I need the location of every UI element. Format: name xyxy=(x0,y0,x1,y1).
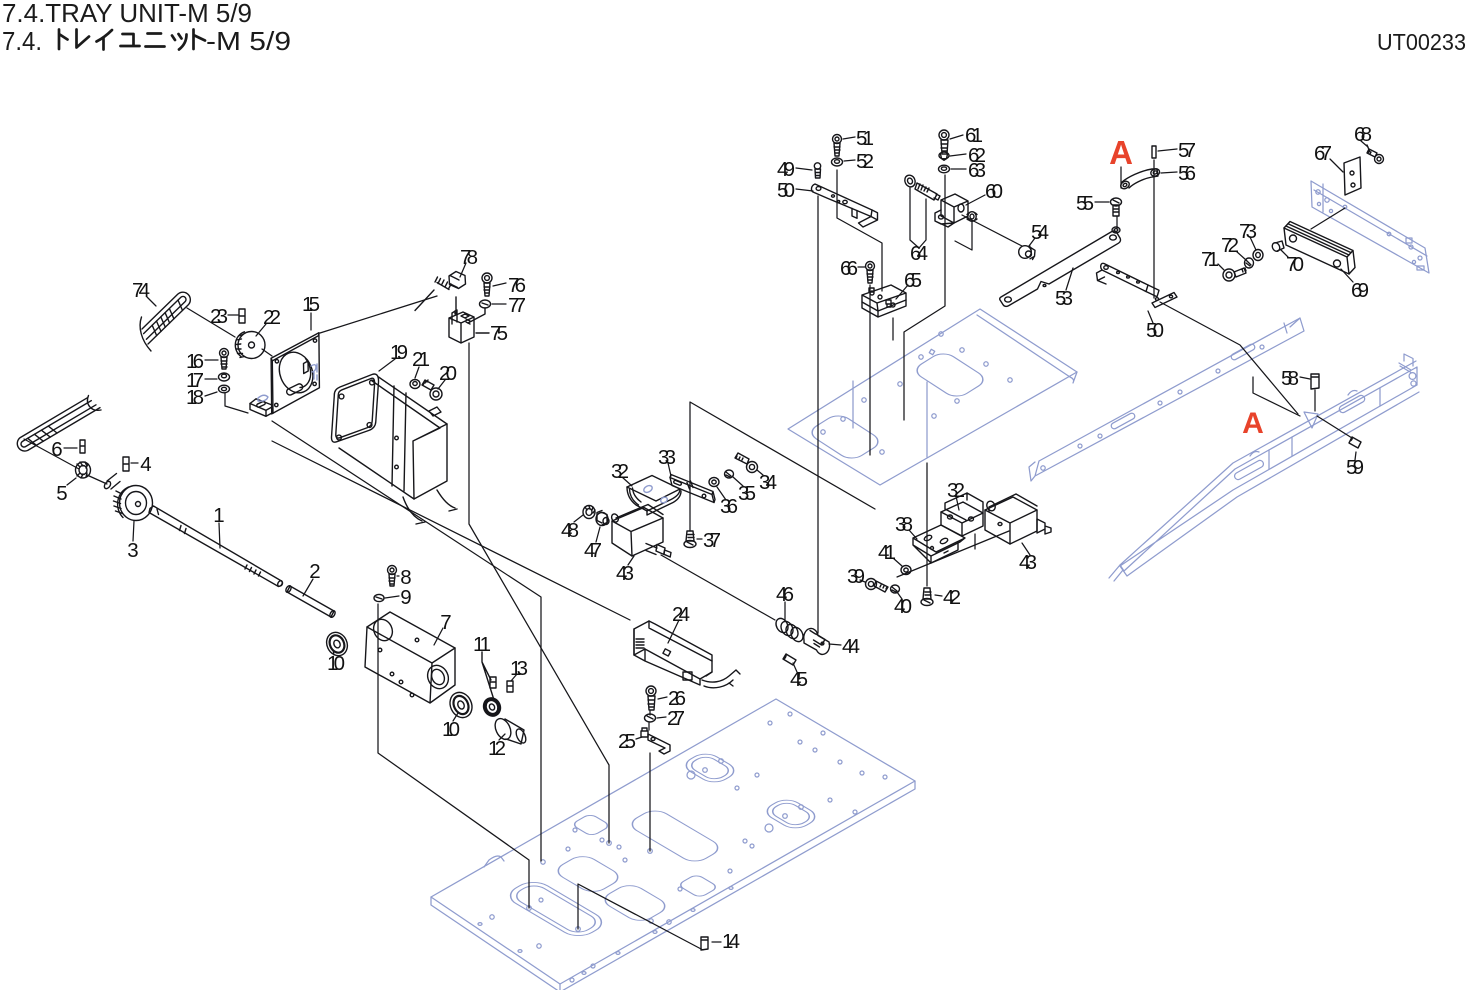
bottom plate cascade cutout middle xyxy=(552,853,625,895)
rail top-right inner lines xyxy=(1314,184,1427,256)
leader bracket 25 to base plate xyxy=(649,753,651,851)
leader pin 57 down through arm 56 to 50b xyxy=(1153,160,1155,298)
rail bottom top tabs xyxy=(1250,391,1357,457)
svg-text:33: 33 xyxy=(658,446,676,469)
rail middle holes xyxy=(1041,345,1264,470)
screw 55 xyxy=(1111,198,1122,233)
dash 61 xyxy=(950,135,963,139)
middle blue plate outline xyxy=(788,309,1077,485)
svg-text:15: 15 xyxy=(302,293,320,316)
dash 9 xyxy=(385,596,399,598)
leader washer of 60 xyxy=(955,222,972,250)
dash 57 xyxy=(1158,149,1177,151)
svg-text:43: 43 xyxy=(1019,551,1037,574)
pin 4 xyxy=(123,457,129,471)
bottom plate pocket A xyxy=(680,750,740,785)
block 60 xyxy=(935,194,968,227)
dash 2 xyxy=(303,579,313,596)
bottom blue plate outline xyxy=(431,699,915,984)
svg-text:-M 5/9: -M 5/9 xyxy=(206,26,291,56)
dash 1 xyxy=(219,523,220,548)
rod 2 xyxy=(285,585,336,618)
pin 58 xyxy=(1311,374,1319,389)
dash 65 xyxy=(896,285,908,299)
slide bar 69 xyxy=(1284,222,1355,275)
svg-text:10: 10 xyxy=(442,718,460,741)
svg-text:37: 37 xyxy=(703,529,721,552)
pin 14 xyxy=(701,937,708,950)
leader washer 9 to base plate xyxy=(378,604,529,908)
svg-text:59: 59 xyxy=(1346,456,1364,479)
nut 62 xyxy=(939,152,949,160)
svg-text:65: 65 xyxy=(904,269,922,292)
solenoid 43L xyxy=(610,505,671,558)
dash 59 xyxy=(1355,452,1356,460)
dash 73 xyxy=(1250,237,1256,250)
dash 70 xyxy=(1281,250,1288,257)
shaft 1 xyxy=(149,506,283,587)
svg-text:50: 50 xyxy=(777,179,795,202)
svg-text:32: 32 xyxy=(947,479,965,502)
leader screw 26 to washer 27 to bracket 25 xyxy=(649,711,650,730)
dash 45 xyxy=(793,663,797,672)
screw 16 xyxy=(220,349,229,370)
solenoid 43R xyxy=(985,494,1051,544)
bolt 20 xyxy=(422,380,442,400)
washer 72 xyxy=(1245,258,1254,268)
screw 23 xyxy=(239,309,245,323)
block 75 xyxy=(449,310,474,343)
svg-text:68: 68 xyxy=(1354,123,1372,146)
pin 45 xyxy=(783,654,796,665)
svg-text:54: 54 xyxy=(1031,221,1049,244)
leader chain 49/50 down to coupler 44 xyxy=(817,196,819,633)
bushing 70 xyxy=(1271,241,1284,253)
kana i xyxy=(97,30,113,50)
bearing housing 7 xyxy=(365,612,455,703)
dash 37 xyxy=(697,538,702,540)
svg-text:27: 27 xyxy=(667,707,685,730)
leader fence screw 37 xyxy=(690,402,875,531)
screw 51 xyxy=(833,135,842,157)
washer 40 xyxy=(891,585,900,593)
svg-text:50: 50 xyxy=(1146,319,1164,342)
dash 46 xyxy=(784,602,786,620)
svg-text:57: 57 xyxy=(1178,139,1196,162)
leader red A2 bracket xyxy=(1253,377,1300,416)
leader 75 dash xyxy=(476,332,489,334)
dash 78 xyxy=(460,263,466,277)
svg-text:75: 75 xyxy=(490,322,508,345)
leader red A1 xyxy=(1120,167,1122,188)
dash 51 xyxy=(843,137,855,139)
washer 21 xyxy=(410,380,420,389)
svg-text:21: 21 xyxy=(412,348,430,371)
nut 47 xyxy=(596,511,609,526)
svg-text:1: 1 xyxy=(213,504,224,527)
svg-text:56: 56 xyxy=(1178,162,1196,185)
svg-text:60: 60 xyxy=(985,180,1003,203)
svg-text:43: 43 xyxy=(616,562,634,585)
kana to 2 xyxy=(194,30,206,50)
leader 50b to bottom rail xyxy=(1160,302,1298,414)
bottom plate cascade pocket left xyxy=(503,878,610,941)
svg-text:52: 52 xyxy=(856,150,874,173)
svg-text:58: 58 xyxy=(1281,367,1299,390)
leader bolt 78 to plate 15 xyxy=(320,296,437,333)
dash 17 xyxy=(205,378,217,380)
svg-text:7.4.: 7.4. xyxy=(2,26,42,56)
svg-text:44: 44 xyxy=(842,635,860,658)
pin 57 xyxy=(1152,146,1156,158)
svg-text:72: 72 xyxy=(1221,234,1239,257)
threaded shaft 64b xyxy=(915,183,940,200)
dash 74 xyxy=(147,297,156,306)
bottom plate square cutout 2 xyxy=(677,874,718,898)
bolt 78 xyxy=(415,272,466,311)
mount plate 15 xyxy=(250,333,319,417)
dash 67 xyxy=(1330,159,1343,172)
pin 6 xyxy=(80,440,85,453)
svg-text:48: 48 xyxy=(561,519,579,542)
middle plate holes xyxy=(821,332,1012,454)
dash 71 xyxy=(1218,264,1224,270)
screw 37 xyxy=(684,531,696,548)
dash 14 xyxy=(712,941,721,943)
dash 44 xyxy=(829,644,841,645)
belt 74 lower segment xyxy=(17,396,101,452)
washer 17 xyxy=(219,373,230,381)
collar 11b xyxy=(482,697,501,717)
svg-text:45: 45 xyxy=(790,668,808,691)
rail top-right outline xyxy=(1311,181,1429,273)
dash 27 xyxy=(657,717,666,718)
bottom plate small holes xyxy=(478,712,887,982)
svg-text:24: 24 xyxy=(672,603,690,626)
svg-text:42: 42 xyxy=(943,586,961,609)
bearing 10b xyxy=(446,689,476,721)
svg-text:32: 32 xyxy=(611,460,629,483)
kana re xyxy=(77,30,90,48)
dash 7 xyxy=(434,628,443,645)
dash 43R xyxy=(1022,543,1030,555)
svg-text:66: 66 xyxy=(840,257,858,280)
dash 68 xyxy=(1361,141,1368,147)
dash 39 xyxy=(860,580,865,582)
rail bottom left tail xyxy=(1109,565,1123,581)
bracket 32R xyxy=(941,493,983,536)
svg-text:49: 49 xyxy=(777,158,795,181)
svg-text:7: 7 xyxy=(440,611,451,634)
bolt 61 xyxy=(939,130,949,154)
leader bracket 32R xyxy=(974,534,976,549)
dash 25 xyxy=(636,737,642,739)
dash 54 xyxy=(1029,238,1035,246)
kana small tsu xyxy=(172,34,187,50)
bracket 25 xyxy=(641,728,670,754)
dash 10b xyxy=(453,713,458,721)
lever bar 53 xyxy=(1000,231,1121,306)
nut 54 xyxy=(1019,246,1035,260)
dash 35 xyxy=(733,477,743,486)
leader pin 59 xyxy=(1317,416,1352,438)
svg-text:63: 63 xyxy=(968,159,986,182)
dash 21 xyxy=(415,367,419,378)
rail bottom slots xyxy=(1233,459,1264,481)
dash 50b xyxy=(1148,311,1153,323)
svg-text:39: 39 xyxy=(847,565,865,588)
washer 18 xyxy=(219,385,230,393)
belt 74 upper segment xyxy=(140,292,190,351)
svg-text:47: 47 xyxy=(584,539,602,562)
washer 9 xyxy=(374,594,384,601)
dash 58 xyxy=(1300,377,1310,379)
leader fence plate15 to sensor 24 xyxy=(272,441,630,620)
washer 77 xyxy=(480,300,491,308)
svg-text:25: 25 xyxy=(618,730,636,753)
link bar 50a xyxy=(811,184,877,227)
bottom plate side faces xyxy=(431,781,915,990)
leader block 60 to nut 54 xyxy=(962,215,1022,246)
rail top-right holes xyxy=(1316,190,1424,270)
svg-text:7.4.TRAY UNIT-M 5/9: 7.4.TRAY UNIT-M 5/9 xyxy=(2,0,252,28)
bolt 39 xyxy=(866,579,889,593)
pin 13 xyxy=(507,681,513,692)
leader screw 42 xyxy=(926,463,928,586)
svg-text:18: 18 xyxy=(186,386,204,409)
dash 20 xyxy=(438,380,445,389)
leader washer 52 to slider 65 xyxy=(837,170,882,291)
svg-text:34: 34 xyxy=(759,471,777,494)
shaft washer 64a xyxy=(903,173,917,188)
bottom plate pocket B xyxy=(761,796,821,831)
bracket 38 xyxy=(913,525,965,563)
dash 32L xyxy=(622,477,632,486)
link bar 50b xyxy=(1097,263,1178,307)
crank arm 56 xyxy=(1119,168,1160,191)
dash 55 xyxy=(1095,201,1109,203)
svg-text:6: 6 xyxy=(51,438,62,461)
svg-text:67: 67 xyxy=(1314,142,1332,165)
dash 52 xyxy=(844,160,855,161)
dash 72 xyxy=(1236,251,1246,260)
dash 47 xyxy=(596,527,600,542)
leader pin 58 xyxy=(1314,390,1316,411)
spring 46 xyxy=(774,616,806,643)
dash 10a xyxy=(333,650,334,655)
dash 5 xyxy=(67,478,76,485)
dash 19 xyxy=(379,359,395,371)
dash 6 xyxy=(64,447,77,449)
pulley 3 xyxy=(103,474,152,521)
leader fence 64 xyxy=(910,187,926,248)
dash 16 xyxy=(205,359,218,361)
dash 32R xyxy=(956,496,959,510)
svg-text:64: 64 xyxy=(910,242,928,265)
svg-text:12: 12 xyxy=(488,737,506,760)
washer 35 xyxy=(725,470,734,478)
kana ni xyxy=(146,34,165,47)
svg-text:11: 11 xyxy=(473,633,491,656)
svg-text:10: 10 xyxy=(327,652,345,675)
dash 48 xyxy=(574,515,583,522)
washer 36 xyxy=(709,478,719,487)
rail middle slots xyxy=(1110,412,1136,430)
svg-text:3: 3 xyxy=(127,539,138,562)
leader washer 63 and block 60 to plate xyxy=(904,175,945,420)
plate 15 blue cable marks xyxy=(258,364,317,401)
washer 73 xyxy=(1253,250,1263,261)
svg-text:36: 36 xyxy=(720,495,738,518)
dash 41 xyxy=(893,558,902,566)
svg-text:71: 71 xyxy=(1201,248,1219,271)
svg-text:A: A xyxy=(1109,134,1133,171)
svg-text:4: 4 xyxy=(140,453,151,476)
washer 52 xyxy=(832,158,843,166)
svg-text:53: 53 xyxy=(1055,287,1073,310)
dash 33 xyxy=(668,463,671,476)
screw 26 xyxy=(646,686,656,710)
dash 76 xyxy=(493,283,506,286)
svg-text:35: 35 xyxy=(738,482,756,505)
washer 63 xyxy=(939,165,950,173)
kana to 1 xyxy=(59,30,68,50)
svg-text:20: 20 xyxy=(439,362,457,385)
middle plate projection lines xyxy=(853,381,927,457)
bearing 10a xyxy=(323,629,351,659)
washer 27 xyxy=(645,714,656,722)
dash 3 xyxy=(133,521,134,541)
dash 38 xyxy=(909,530,917,539)
dash 56 xyxy=(1161,172,1177,173)
svg-text:9: 9 xyxy=(400,586,411,609)
svg-text:19: 19 xyxy=(390,341,408,364)
dash 63 xyxy=(951,168,966,170)
bolt 34 xyxy=(735,453,758,473)
svg-text:74: 74 xyxy=(132,279,150,302)
svg-text:38: 38 xyxy=(895,513,913,536)
knurled nut 5 xyxy=(76,462,91,478)
dash 12 xyxy=(499,734,505,740)
svg-text:78: 78 xyxy=(460,246,478,269)
svg-text:13: 13 xyxy=(510,657,528,680)
svg-text:51: 51 xyxy=(856,127,874,150)
rail bottom V notch xyxy=(1304,412,1318,428)
leader 65 right screw xyxy=(892,318,894,340)
leader bolt 66 through 65 to plate xyxy=(869,285,871,455)
dash 23 xyxy=(228,314,238,316)
dash 66 xyxy=(858,266,865,268)
pin 11a xyxy=(490,677,496,688)
svg-text:55: 55 xyxy=(1076,192,1094,215)
rail bottom end block xyxy=(1399,354,1413,373)
dash 50a xyxy=(796,189,813,191)
sensor 24 xyxy=(634,621,740,688)
leader fence plate15 to base plate xyxy=(272,421,541,861)
motor 19 xyxy=(331,374,457,524)
svg-text:A: A xyxy=(1242,407,1264,440)
dash 60 xyxy=(966,195,985,205)
nut 48 xyxy=(583,506,595,519)
svg-text:41: 41 xyxy=(878,541,896,564)
leader solenoid 43L to spring 46 xyxy=(661,555,775,620)
screw 8 xyxy=(388,566,397,587)
dash 42 xyxy=(935,595,942,596)
dash 69 xyxy=(1341,269,1353,282)
leader bar 69 to rail xyxy=(1311,208,1345,229)
coupler 44 xyxy=(804,628,830,654)
leader washer 18 to foot xyxy=(225,393,248,413)
screw 49 xyxy=(814,163,820,178)
screw 68 xyxy=(1367,145,1384,164)
bottom plate big cutout xyxy=(626,807,724,865)
svg-text:22: 22 xyxy=(263,306,281,329)
middle plate lip edge xyxy=(977,315,1077,383)
screw 76 xyxy=(482,273,492,296)
washer 41 xyxy=(901,566,911,575)
leader axis bracket38 cluster xyxy=(897,531,1009,577)
rail bottom outline xyxy=(1120,361,1419,576)
leader belt2 to pulley 3 axis xyxy=(24,439,107,484)
svg-text:23: 23 xyxy=(210,305,228,328)
dash 22 xyxy=(256,324,266,336)
dash 34 xyxy=(757,470,763,475)
dash 18 xyxy=(205,392,217,396)
dash 62 xyxy=(950,154,966,156)
dash 53 xyxy=(1066,268,1073,290)
bushing 12 xyxy=(492,716,528,744)
svg-text:77: 77 xyxy=(508,294,526,317)
svg-text:40: 40 xyxy=(894,595,912,618)
dash 15 xyxy=(310,313,312,330)
rail bottom web dividers xyxy=(1269,388,1380,469)
dash 43L xyxy=(628,556,634,565)
screw 42 xyxy=(921,588,933,606)
bottom plate square cutout 1 xyxy=(571,813,611,836)
middle plate cutout lower xyxy=(806,412,884,462)
plate 67 xyxy=(1344,157,1361,195)
pin 59 xyxy=(1349,437,1361,448)
bottom plate edge notch xyxy=(484,856,504,867)
bottom plate pocket holes xyxy=(687,759,803,832)
leader pin 14 xyxy=(578,884,703,950)
leader screw 55 xyxy=(1116,216,1118,228)
pulley 22 xyxy=(235,332,265,359)
bolt 71 xyxy=(1223,268,1246,281)
svg-text:73: 73 xyxy=(1239,220,1257,243)
cover bracket 32L xyxy=(627,476,681,516)
fence 11 xyxy=(482,652,494,700)
flanged washer of 60 xyxy=(967,212,977,222)
svg-text:69: 69 xyxy=(1351,279,1369,302)
title line 2 katakana (drawn strokes) xyxy=(59,30,205,50)
dash 40 xyxy=(897,592,902,599)
bar bracket 33 xyxy=(670,475,715,503)
svg-text:2: 2 xyxy=(309,560,320,583)
dash 4 xyxy=(131,462,138,464)
dash 13 xyxy=(511,674,517,681)
dash 36 xyxy=(717,487,726,500)
svg-text:70: 70 xyxy=(1286,253,1304,276)
leader 77 zigzag xyxy=(456,297,485,323)
rail middle outline xyxy=(1029,318,1304,481)
kana yu xyxy=(121,34,140,46)
dash 77 xyxy=(492,303,506,305)
dash 24 xyxy=(668,620,679,643)
slider block 65 xyxy=(862,285,906,317)
svg-text:14: 14 xyxy=(722,930,740,953)
rail middle notch xyxy=(1284,318,1300,333)
